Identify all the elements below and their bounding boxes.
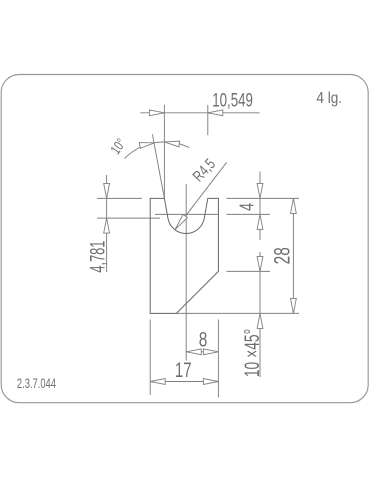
arc-center depth line [155,213,270,215]
svg-text:8: 8 [199,327,208,351]
drawing frame border [1,75,368,403]
arrow 28 top [291,198,297,213]
arrow 28 bottom [291,298,297,313]
part outline [150,198,218,313]
radius leader R4,5 [175,162,227,229]
arrow dim4 top [257,183,263,198]
notch wall extension for angle [152,134,164,198]
dim 10,549 line [140,112,259,114]
arrow angle left [139,140,155,148]
svg-text:10 ×45°: 10 ×45° [240,329,264,377]
dim 4 / 10x45 line [259,172,261,378]
dim 10,549 left extension [163,105,165,198]
bottom edge extension [176,312,299,314]
svg-text:4,781: 4,781 [85,241,109,273]
svg-text:2.3.7.044: 2.3.7.044 [17,375,56,391]
top edge left extension [97,197,142,199]
svg-text:4: 4 [235,203,258,211]
arrow chamfer top [257,256,263,271]
arrow chamfer bottom [257,313,263,328]
arrow angle right [164,139,180,147]
arrow 17 left [150,379,165,385]
chamfer corner extension [226,270,270,272]
angle dimension arc [125,142,190,159]
arrow top dim right [208,110,223,116]
arrow 4,781 bottom [104,218,110,233]
dim 17 left extension [149,320,151,396]
dim 28 line [292,198,294,313]
dim 8 line [186,351,218,353]
svg-text:28: 28 [271,247,295,264]
arrow top dim left [149,110,164,116]
reference line 4,781 depth [97,217,160,219]
dim 4,781 line [106,175,108,272]
arrow 4,781 top [104,183,110,198]
dim 10,549 right extension [207,105,209,135]
arrow 17 right [203,379,218,385]
centerline [185,184,187,361]
dim 17 line [150,381,218,383]
dim 17 right extension [217,320,219,398]
top edge right extension [227,197,300,199]
arrow dim4 bottom [257,214,263,229]
svg-text:4 lg.: 4 lg. [316,90,342,107]
arrow 8 left [186,349,201,355]
svg-text:10,549: 10,549 [212,90,253,111]
arrowheads [104,110,297,385]
svg-text:17: 17 [175,357,192,381]
arrow 8 right [203,349,218,355]
arrow radius leader [173,214,188,231]
